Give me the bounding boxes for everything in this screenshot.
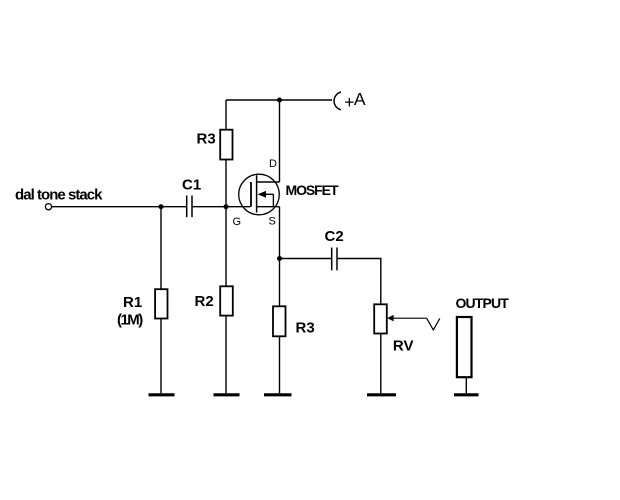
wire: R1 to ground bbox=[160, 319, 162, 394]
wire: gate junction up to R3 bbox=[225, 159, 227, 207]
wiper arrow of RV bbox=[387, 315, 440, 330]
resistor R3 (top) bbox=[220, 130, 232, 160]
svg-text:G: G bbox=[233, 216, 242, 228]
wire: C1 to gate junction and MOSFET gate bbox=[193, 206, 251, 208]
node: gate junction bbox=[224, 204, 229, 209]
svg-text:D: D bbox=[269, 158, 277, 170]
output jack bbox=[457, 317, 472, 377]
wire: gate junction down to R2 bbox=[225, 207, 227, 286]
svg-text:(1M): (1M) bbox=[117, 311, 143, 328]
node: source/C2 junction bbox=[277, 256, 282, 261]
node: junction at R1 bbox=[159, 204, 164, 209]
wire: R3 up to +A rail bbox=[225, 100, 227, 130]
svg-text:R1: R1 bbox=[123, 294, 142, 311]
wire: C2 to RV corner bbox=[338, 259, 381, 305]
wire: junction down to R1 bbox=[160, 207, 162, 289]
wire: junction to C2 bbox=[280, 258, 332, 260]
input terminal (open circle) bbox=[45, 204, 51, 210]
resistor R3 (bottom) bbox=[273, 306, 286, 336]
wire: MOSFET source down to C2 node bbox=[279, 207, 281, 259]
capacitor C2 bbox=[332, 248, 337, 271]
wire: input terminal to C1 bbox=[52, 206, 186, 208]
resistor R2 bbox=[220, 286, 233, 315]
wire: R2 to ground bbox=[225, 316, 227, 393]
svg-text:S: S bbox=[269, 216, 276, 228]
ground (R2) bbox=[214, 393, 240, 396]
wire: R3 bottom to ground bbox=[279, 336, 281, 393]
svg-text:R3: R3 bbox=[197, 131, 216, 148]
wire: +A rail bbox=[226, 99, 332, 101]
ground (OUTPUT) bbox=[454, 393, 479, 396]
svg-text:C1: C1 bbox=[182, 177, 201, 194]
svg-text:RV: RV bbox=[393, 337, 414, 354]
wire: output jack to ground bbox=[465, 378, 467, 394]
wire: junction down to R3 bottom bbox=[279, 259, 281, 307]
svg-text:R2: R2 bbox=[195, 293, 214, 310]
terminal +A (arc) bbox=[334, 92, 341, 110]
transistor MOSFET U1 bbox=[239, 174, 280, 215]
svg-text:OUTPUT: OUTPUT bbox=[456, 295, 510, 311]
svg-text:dal tone stack: dal tone stack bbox=[15, 187, 103, 204]
ground (RV) bbox=[367, 393, 396, 396]
node: drain junction on rail bbox=[277, 98, 282, 103]
svg-text:C2: C2 bbox=[325, 228, 344, 245]
ground (R3 bottom) bbox=[264, 393, 292, 396]
svg-text:MOSFET: MOSFET bbox=[286, 182, 339, 198]
capacitor C1 bbox=[187, 196, 192, 218]
wire: RV to ground bbox=[380, 334, 382, 394]
svg-text:R3: R3 bbox=[296, 320, 315, 337]
svg-text:A: A bbox=[354, 89, 366, 109]
wire: rail to MOSFET drain bbox=[279, 100, 281, 182]
ground (R1) bbox=[149, 393, 175, 396]
resistor R1 bbox=[155, 289, 167, 318]
potentiometer RV bbox=[374, 304, 387, 333]
